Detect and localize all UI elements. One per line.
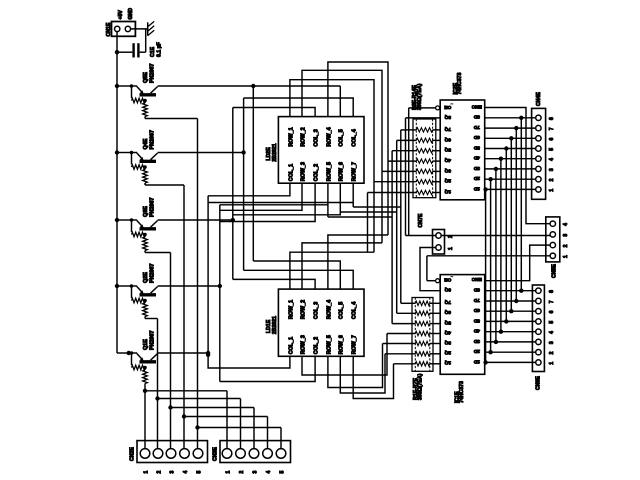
svg-text:1Q: 1Q bbox=[444, 360, 451, 366]
svg-text:5Q: 5Q bbox=[444, 147, 451, 153]
svg-text:5: 5 bbox=[549, 148, 555, 151]
svg-text:2: 2 bbox=[563, 244, 569, 247]
svg-text:1D: 1D bbox=[473, 358, 480, 364]
svg-text:CN3E: CN3E bbox=[213, 447, 219, 461]
svg-text:6D: 6D bbox=[473, 134, 480, 140]
svg-text:ROW_1: ROW_1 bbox=[288, 127, 294, 146]
svg-text:4D: 4D bbox=[473, 155, 480, 161]
svg-text:1: 1 bbox=[549, 362, 555, 365]
svg-text:3Q: 3Q bbox=[444, 167, 451, 173]
svg-text:6: 6 bbox=[549, 310, 555, 313]
svg-text:ROW_7: ROW_7 bbox=[352, 162, 358, 181]
svg-text:COL_3: COL_3 bbox=[314, 302, 320, 319]
svg-text:PN2907: PN2907 bbox=[150, 198, 156, 217]
svg-text:OE: OE bbox=[444, 104, 452, 110]
svg-text:ROW_2: ROW_2 bbox=[300, 300, 306, 319]
svg-text:5: 5 bbox=[196, 471, 202, 474]
svg-text:7: 7 bbox=[549, 127, 555, 130]
svg-text:5D: 5D bbox=[473, 144, 480, 150]
svg-text:1D: 1D bbox=[473, 185, 480, 191]
svg-text:5D: 5D bbox=[473, 317, 480, 323]
svg-text:3: 3 bbox=[549, 341, 555, 344]
svg-text:1: 1 bbox=[563, 255, 569, 258]
svg-text:1: 1 bbox=[225, 471, 231, 474]
svg-text:PN2907: PN2907 bbox=[150, 64, 156, 83]
svg-text:6: 6 bbox=[549, 138, 555, 141]
svg-text:2: 2 bbox=[156, 471, 162, 474]
svg-text:Q1E: Q1E bbox=[143, 339, 149, 350]
svg-text:4: 4 bbox=[549, 331, 555, 334]
svg-text:6Q: 6Q bbox=[444, 309, 451, 315]
svg-text:2: 2 bbox=[239, 471, 245, 474]
svg-text:CN2E: CN2E bbox=[130, 447, 136, 461]
svg-text:7D: 7D bbox=[473, 297, 480, 303]
svg-text:CN4E: CN4E bbox=[536, 92, 542, 106]
svg-text:300Ω(7EA): 300Ω(7EA) bbox=[418, 373, 424, 400]
svg-text:COL_4: COL_4 bbox=[352, 302, 358, 319]
svg-text:C1E: C1E bbox=[150, 46, 156, 57]
svg-text:COL_3: COL_3 bbox=[314, 129, 320, 146]
svg-text:+5V: +5V bbox=[118, 10, 124, 20]
svg-text:PN2907: PN2907 bbox=[150, 130, 156, 149]
svg-text:PN2907: PN2907 bbox=[150, 331, 156, 350]
svg-text:COL_4: COL_4 bbox=[352, 129, 358, 146]
svg-text:8: 8 bbox=[549, 290, 555, 293]
svg-text:CN7E: CN7E bbox=[418, 213, 424, 227]
svg-text:COL_1: COL_1 bbox=[288, 164, 294, 181]
svg-text:COL_2: COL_2 bbox=[314, 164, 320, 181]
svg-text:GND: GND bbox=[128, 8, 134, 20]
svg-text:1: 1 bbox=[448, 247, 454, 250]
svg-text:ROW_4: ROW_4 bbox=[326, 127, 332, 146]
svg-text:5: 5 bbox=[279, 471, 285, 474]
svg-text:7Q: 7Q bbox=[444, 299, 451, 305]
svg-text:2Q: 2Q bbox=[444, 350, 451, 356]
svg-text:ROW_5: ROW_5 bbox=[326, 335, 332, 354]
svg-text:COL_5: COL_5 bbox=[339, 129, 345, 146]
svg-text:COL_1: COL_1 bbox=[288, 337, 294, 354]
svg-text:ENC: ENC bbox=[471, 276, 482, 282]
svg-text:2: 2 bbox=[549, 351, 555, 354]
svg-text:3: 3 bbox=[549, 168, 555, 171]
svg-text:CN6E: CN6E bbox=[535, 376, 541, 390]
svg-text:5Q: 5Q bbox=[444, 320, 451, 326]
svg-text:3: 3 bbox=[563, 234, 569, 237]
svg-text:4Q: 4Q bbox=[444, 157, 451, 163]
svg-text:1: 1 bbox=[549, 189, 555, 192]
svg-text:74HC373: 74HC373 bbox=[459, 381, 465, 403]
svg-text:7Q: 7Q bbox=[444, 126, 451, 132]
svg-text:2B2021: 2B2021 bbox=[272, 143, 278, 161]
svg-text:ROW_2: ROW_2 bbox=[300, 127, 306, 146]
svg-text:4: 4 bbox=[549, 158, 555, 161]
svg-text:PN2907: PN2907 bbox=[150, 264, 156, 283]
svg-text:ROW_3: ROW_3 bbox=[300, 335, 306, 354]
svg-text:0.1 µF: 0.1 µF bbox=[156, 42, 162, 57]
svg-text:2: 2 bbox=[549, 178, 555, 181]
svg-text:COL_2: COL_2 bbox=[314, 337, 320, 354]
svg-text:Q3E: Q3E bbox=[143, 206, 149, 217]
svg-text:8D: 8D bbox=[473, 114, 480, 120]
svg-text:8Q: 8Q bbox=[444, 287, 451, 293]
svg-text:ENC: ENC bbox=[471, 103, 482, 109]
svg-text:6Q: 6Q bbox=[444, 136, 451, 142]
svg-text:4: 4 bbox=[563, 223, 569, 226]
svg-text:ROW_7: ROW_7 bbox=[352, 335, 358, 354]
svg-text:ROW_6: ROW_6 bbox=[339, 335, 345, 354]
svg-text:2B2021: 2B2021 bbox=[272, 316, 278, 334]
svg-text:CN5E: CN5E bbox=[552, 264, 558, 278]
svg-text:2D: 2D bbox=[473, 175, 480, 181]
svg-text:ROW_6: ROW_6 bbox=[339, 162, 345, 181]
svg-text:3Q: 3Q bbox=[444, 339, 451, 345]
svg-text:7: 7 bbox=[549, 300, 555, 303]
svg-text:ROW_3: ROW_3 bbox=[300, 162, 306, 181]
svg-text:ROW_1: ROW_1 bbox=[288, 300, 294, 319]
svg-text:Q2E: Q2E bbox=[143, 272, 149, 283]
svg-text:CN1E: CN1E bbox=[106, 22, 112, 36]
svg-text:COL_5: COL_5 bbox=[339, 302, 345, 319]
svg-text:3D: 3D bbox=[473, 338, 480, 344]
svg-text:Q4E: Q4E bbox=[143, 138, 149, 149]
svg-text:2Q: 2Q bbox=[444, 178, 451, 184]
svg-text:4: 4 bbox=[183, 471, 189, 474]
svg-text:74HC373: 74HC373 bbox=[457, 72, 463, 94]
svg-text:3: 3 bbox=[252, 471, 258, 474]
svg-text:4D: 4D bbox=[473, 328, 480, 334]
svg-text:Q5E: Q5E bbox=[143, 72, 149, 83]
svg-text:300Ω(7EA): 300Ω(7EA) bbox=[417, 83, 423, 110]
svg-text:1: 1 bbox=[143, 471, 149, 474]
svg-text:ROW_5: ROW_5 bbox=[326, 162, 332, 181]
svg-text:4: 4 bbox=[266, 471, 272, 474]
svg-text:7D: 7D bbox=[473, 124, 480, 130]
svg-text:3D: 3D bbox=[473, 165, 480, 171]
svg-text:ROW_4: ROW_4 bbox=[326, 300, 332, 319]
svg-text:1Q: 1Q bbox=[444, 188, 451, 194]
svg-text:5: 5 bbox=[549, 321, 555, 324]
svg-text:8Q: 8Q bbox=[444, 114, 451, 120]
svg-text:3: 3 bbox=[169, 471, 175, 474]
svg-text:OE: OE bbox=[444, 277, 452, 283]
svg-text:4Q: 4Q bbox=[444, 329, 451, 335]
svg-text:2D: 2D bbox=[473, 348, 480, 354]
svg-text:8D: 8D bbox=[473, 287, 480, 293]
svg-text:8: 8 bbox=[549, 117, 555, 120]
svg-text:6D: 6D bbox=[473, 307, 480, 313]
